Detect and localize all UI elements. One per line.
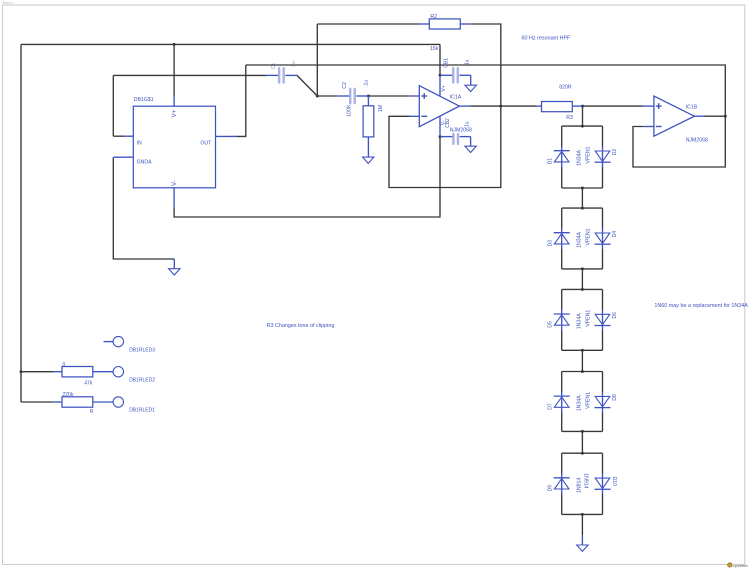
svg-text:C2: C2 [342,82,348,89]
wire diode stack to ground [581,514,583,545]
wire R2 left net vertical [316,24,318,96]
ground diode stack [577,545,588,551]
diode D7 1N34A [547,392,569,413]
svg-text:1N34A: 1N34A [576,395,582,411]
svg-text:1N34A: 1N34A [576,231,582,247]
ground GNDA [169,259,180,275]
wire IC1B output [705,115,726,117]
wire IC1B feedback loop [633,116,725,167]
svg-text:NJM2068: NJM2068 [686,138,708,144]
wire diode stack connector [581,431,583,453]
svg-text:1M: 1M [378,105,384,112]
svg-text:C1: C1 [271,63,277,70]
diode D4 [595,228,618,249]
wire GNDA net [113,157,174,259]
svg-text:R: R [90,409,94,415]
svg-text:1N60 may be a replacement for: 1N60 may be a replacement for 1N34A [654,303,748,309]
wire C2 to IC1A + input [368,95,409,97]
diode D9 1N914 [547,473,569,494]
wire R3 junction to IC1B + input [583,105,644,107]
svg-text:VPEN1: VPEN1 [585,392,591,409]
wire OUT pin riser [236,65,246,136]
note 60 Hz resonant HPF [522,36,572,42]
wire diode stack connector [581,350,583,371]
svg-text:IN: IN [137,140,142,146]
node junction C2 / 1M resistor [367,95,370,98]
label 1N34A [576,231,582,247]
op-amp IC1A NJM2068 [410,75,473,136]
svg-text:VPEN1: VPEN1 [585,228,591,245]
label VPEN1 [585,392,591,409]
svg-text:820R: 820R [559,84,572,90]
svg-text:DB1RLED1: DB1RLED1 [129,407,155,413]
svg-text:DB1RLED3: DB1RLED3 [129,347,155,353]
label VPEN1 [585,310,591,327]
svg-text:V+: V+ [172,109,178,117]
capacitor CB1 .1u [440,58,471,85]
svg-text:0: 0 [63,362,66,368]
node junction IC1A output / R2 [499,105,502,108]
wire diode pair box 5 [562,452,603,516]
IC DB1G$1 in/out block [113,96,236,207]
svg-text:D9: D9 [547,485,553,492]
wire V- net [174,137,440,217]
svg-text:R2: R2 [430,14,437,20]
wire IN net vertical [113,75,123,136]
wire diode pair box 4 [562,370,603,433]
op-amp IC1B NJM2068 [643,96,708,144]
svg-text:15k: 15k [430,46,439,52]
svg-text:100K: 100K [347,104,353,117]
node junction left rail / 47k [20,370,23,373]
note R3 changes tone [267,323,335,329]
diode D6 [595,310,618,331]
resistor R2 15k [419,14,470,52]
wire 220k branch [21,401,53,403]
resistor 220k [53,392,113,415]
label VPEN1 [585,228,591,245]
pad DB1RLED2 [113,367,155,384]
wire diode pair box 3 [562,288,603,352]
node junction summing node [316,95,319,98]
svg-text:D2: D2 [612,149,618,156]
svg-text:D3: D3 [547,240,553,247]
diode D8 [595,392,618,413]
wire R2 left net horizontal [317,23,419,25]
pad DB1RLED1 [113,397,155,414]
ground CB2 [465,146,476,152]
wire IC1A output to R3 [470,105,536,107]
diode D10 [595,473,617,494]
svg-text:.1u: .1u [464,59,470,66]
node junction R3 / IC1B / diodes [581,105,584,108]
svg-text:VPEN1: VPEN1 [585,146,591,163]
wire R3 to diode stack [582,106,584,126]
svg-text:.1u: .1u [363,80,369,87]
svg-text:D1: D1 [547,158,553,165]
node junction IC1A V+ / CB1 [439,74,442,77]
diode D3 1N34A [547,228,569,249]
svg-text:Sheet 1: Sheet 1 [3,1,14,5]
resistor 47k [53,362,113,387]
label 1N34A [576,313,582,329]
ground CB1 [465,85,476,91]
wire summing node to C2 [317,95,337,97]
svg-text:D10: D10 [611,477,617,486]
svg-text:CB1: CB1 [444,58,450,68]
node junction IC1A V- / CB2 [439,135,442,138]
wire output rail y=65 [246,65,726,116]
diode D1 1N34A [547,146,569,167]
label 1N34A [576,395,582,411]
ground 1M resistor [363,157,374,163]
svg-text:VPEN1: VPEN1 [585,310,591,327]
wire diode pair box 2 [562,207,603,271]
svg-text:1N34A: 1N34A [576,313,582,329]
svg-text:V-: V- [172,180,178,186]
svg-text:60 Hz resonant HPF: 60 Hz resonant HPF [522,36,572,42]
wire 47k branch [21,371,53,373]
wire diode pair box 1 [562,125,603,190]
svg-text:1N914: 1N914 [576,478,582,493]
diode D2 [595,146,618,167]
diode D5 1N34A [547,310,569,331]
svg-text:DB1RLED2: DB1RLED2 [129,377,155,383]
svg-text:IC1A: IC1A [450,94,462,100]
svg-text:.1u: .1u [464,121,470,128]
label 1N914 [576,478,582,493]
svg-text:.1u: .1u [291,61,297,68]
svg-text:D5: D5 [547,321,553,328]
svg-text:OUT: OUT [200,140,212,146]
svg-text:D7: D7 [547,403,553,410]
wire diode stack connector [581,188,583,208]
note 1N60 replacement [654,303,748,309]
svg-text:R3: R3 [566,115,573,121]
svg-text:1N914: 1N914 [583,473,589,488]
svg-text:DB1G$1: DB1G$1 [134,97,154,103]
wire R2 right net [389,24,501,188]
pad DB1RLED3 [104,336,156,353]
wire IN net: corner to C1 [113,74,266,76]
resistor 1M (100K label) [347,96,384,157]
svg-text:CB2: CB2 [445,118,451,128]
svg-text:47k: 47k [84,381,93,387]
capacitor CB2 .1u [440,121,471,146]
label 1N34A [576,149,582,165]
capacitor C1 .1u [266,61,297,84]
wire V+ rail from left rail to IC1A V+ node [21,44,440,75]
wire V+ drop to DB1G$1 [173,44,175,96]
svg-text:220k: 220k [63,392,74,398]
capacitor C2 .1u [337,80,369,105]
wire diode stack connector [581,269,583,290]
svg-text:GNDA: GNDA [137,160,153,166]
svg-text:upverter: upverter [733,563,748,568]
wire left rail vertical [20,44,22,402]
svg-text:D6: D6 [612,312,618,319]
label VPEN1 [585,146,591,163]
svg-text:V+: V+ [441,85,447,91]
svg-text:R3 Changes tone of clipping: R3 Changes tone of clipping [267,323,335,329]
svg-text:D8: D8 [612,394,618,401]
svg-text:D4: D4 [612,231,618,238]
resistor R3 820R [536,84,583,121]
svg-text:1N34A: 1N34A [576,149,582,165]
wire C1 to summing node diagonal [297,75,317,96]
node junction V+ rail / DB1G$1 [173,43,176,46]
node junction IC1B output [724,115,727,118]
label 1N914 [583,473,589,488]
svg-text:IC1B: IC1B [686,104,698,110]
